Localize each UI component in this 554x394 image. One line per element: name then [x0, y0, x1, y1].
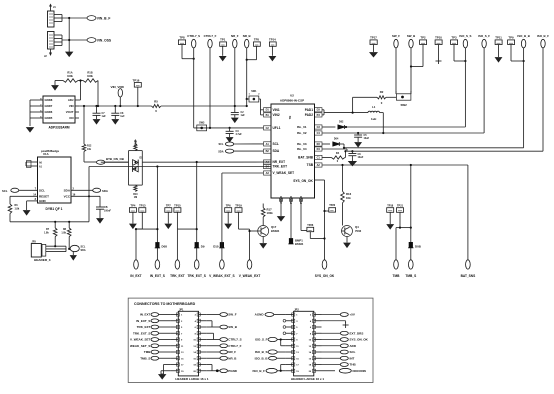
svg-text:TP14: TP14: [269, 38, 276, 42]
svg-text:VIN_VDD: VIN_VDD: [111, 85, 125, 89]
svg-text:ISO_B_F: ISO_B_F: [537, 34, 549, 38]
svg-text:CTRL7_F: CTRL7_F: [228, 344, 241, 348]
svg-text:VOUT: VOUT: [66, 110, 74, 114]
svg-text:TRK_EXT_S: TRK_EXT_S: [187, 274, 205, 278]
svg-text:ISO_S_S: ISO_S_S: [459, 34, 471, 38]
svg-text:HEADER LARGE 16 x 1: HEADER LARGE 16 x 1: [175, 377, 209, 381]
svg-text:GND7: GND7: [45, 104, 53, 108]
svg-text:TP15: TP15: [174, 203, 181, 207]
svg-text:R5: R5: [154, 99, 158, 103]
svg-text:TP18: TP18: [387, 204, 394, 207]
svg-text:TRK_EXT: TRK_EXT: [137, 325, 151, 329]
svg-text:D04: D04: [334, 138, 339, 141]
svg-text:NOCONN: NOCONN: [353, 369, 366, 373]
svg-text:TP3: TP3: [451, 36, 457, 40]
svg-text:SCL: SCL: [81, 246, 86, 249]
svg-text:NR_B: NR_B: [243, 34, 251, 38]
svg-text:TP26: TP26: [307, 224, 314, 227]
svg-text:ISL_01: ISL_01: [297, 125, 307, 129]
svg-text:VCC: VCC: [64, 195, 71, 199]
svg-text:SCL: SCL: [2, 189, 8, 193]
svg-text:1.8k: 1.8k: [61, 232, 66, 235]
svg-text:TMB_S: TMB_S: [405, 274, 416, 278]
svg-text:TP13: TP13: [139, 203, 146, 207]
svg-text:U2: U2: [290, 94, 294, 98]
svg-text:1uF: 1uF: [102, 115, 107, 118]
svg-text:SW_B: SW_B: [407, 34, 415, 38]
svg-text:TP2: TP2: [420, 36, 426, 40]
svg-text:VIN_OSS: VIN_OSS: [97, 38, 112, 42]
svg-text:D9: D9: [201, 244, 205, 248]
svg-text:1M: 1M: [134, 196, 137, 199]
svg-text:DYB1 QF 1: DYB1 QF 1: [45, 207, 62, 211]
svg-text:BAT_SNB: BAT_SNB: [298, 156, 314, 160]
svg-text:TMB: TMB: [144, 350, 151, 354]
svg-text:V_WEAK_SET: V_WEAK_SET: [130, 338, 151, 342]
svg-text:VIN1: VIN1: [273, 108, 280, 112]
svg-text:IN_EXT: IN_EXT: [130, 274, 141, 278]
svg-text:SDA: SDA: [273, 149, 280, 153]
svg-text:100k: 100k: [87, 74, 93, 78]
svg-text:100k: 100k: [267, 211, 274, 215]
svg-text:TP6: TP6: [226, 203, 231, 207]
svg-text:D0B: D0B: [415, 244, 421, 248]
svg-text:100k: 100k: [67, 74, 73, 78]
svg-text:THB: THB: [350, 363, 357, 367]
svg-text:ADJ: ADJ: [68, 98, 74, 102]
svg-text:CTRL7_S: CTRL7_S: [228, 338, 241, 342]
svg-text:NR_B: NR_B: [228, 356, 237, 360]
svg-text:10uF: 10uF: [358, 156, 364, 159]
svg-text:TP1: TP1: [220, 38, 226, 42]
svg-text:GND5: GND5: [45, 116, 53, 120]
svg-text:AGND: AGND: [255, 313, 265, 317]
svg-text:TSB: TSB: [307, 163, 314, 167]
svg-text:TP21: TP21: [397, 204, 404, 207]
svg-text:EXT_DRS: EXT_DRS: [350, 331, 364, 335]
svg-text:D08: D08: [162, 244, 168, 248]
svg-text:TP7: TP7: [166, 203, 171, 207]
svg-text:10k: 10k: [346, 196, 351, 200]
svg-text:NR_F: NR_F: [231, 34, 239, 38]
svg-text:PAD2: PAD2: [305, 113, 313, 117]
svg-text:CTRL7_S: CTRL7_S: [187, 34, 200, 38]
svg-text:+5V: +5V: [350, 313, 355, 317]
svg-text:SYS_ON_OK: SYS_ON_OK: [315, 274, 335, 278]
svg-text:ISL_03: ISL_03: [297, 142, 307, 146]
svg-text:SCL: SCL: [219, 143, 224, 146]
svg-text:V_WEAK_EXT_S: V_WEAK_EXT_S: [209, 274, 235, 278]
svg-text:ISO_B_F: ISO_B_F: [252, 369, 265, 373]
svg-text:SDA: SDA: [81, 249, 86, 252]
svg-text:SDA: SDA: [102, 189, 108, 193]
svg-text:SW_F: SW_F: [392, 34, 400, 38]
svg-text:TP16: TP16: [133, 79, 140, 83]
svg-text:R1B: R1B: [87, 71, 92, 75]
svg-text:ISO_S_F: ISO_S_F: [255, 338, 268, 342]
svg-text:HEADER_3: HEADER_3: [34, 258, 51, 262]
svg-text:SW2: SW2: [400, 103, 407, 107]
svg-text:SCL: SCL: [39, 189, 45, 193]
svg-text:ON: ON: [69, 116, 73, 120]
svg-text:R2: R2: [380, 90, 384, 94]
svg-text:V_WEAK_EXT: V_WEAK_EXT: [239, 274, 261, 278]
svg-text:CONNECTORS TO MOTHERBOARD: CONNECTORS TO MOTHERBOARD: [134, 302, 196, 306]
svg-text:TP19: TP19: [235, 203, 242, 207]
svg-text:SDA: SDA: [64, 189, 71, 193]
svg-text:TRK_EXT_S: TRK_EXT_S: [133, 331, 150, 335]
svg-text:1uF: 1uF: [120, 115, 125, 118]
svg-text:1uF: 1uF: [241, 114, 246, 117]
svg-text:TP11: TP11: [495, 36, 502, 40]
svg-text:TP10: TP10: [435, 36, 442, 40]
svg-text:CTRL7_F: CTRL7_F: [204, 34, 217, 38]
svg-text:1.8k: 1.8k: [15, 208, 20, 211]
svg-text:ISO_B_B: ISO_B_B: [517, 34, 529, 38]
svg-text:WEAK_SET_S: WEAK_SET_S: [130, 344, 150, 348]
svg-text:7002: 7002: [355, 229, 362, 233]
svg-text:SCL: SCL: [350, 350, 356, 354]
svg-text:INT: INT: [350, 356, 355, 360]
svg-text:TP9: TP9: [508, 36, 514, 40]
svg-text:BSS84: BSS84: [295, 242, 304, 246]
svg-text:VIN2: VIN2: [273, 113, 280, 117]
svg-text:V_WEAK_SET: V_WEAK_SET: [273, 171, 295, 175]
svg-text:VIN: VIN: [69, 104, 74, 108]
svg-text:SW_F: SW_F: [228, 313, 237, 317]
svg-text:GND8: GND8: [45, 98, 53, 102]
svg-text:TP20: TP20: [329, 204, 336, 207]
svg-text:ISL_04: ISL_04: [297, 147, 307, 151]
svg-text:L1: L1: [372, 105, 376, 109]
svg-text:BMP1: BMP1: [295, 238, 303, 242]
svg-text:ISO_B_S: ISO_B_S: [255, 350, 268, 354]
svg-text:BTB_ON_OB: BTB_ON_OB: [106, 157, 124, 161]
svg-text:GND6: GND6: [45, 110, 53, 114]
svg-text:R1A: R1A: [67, 71, 72, 75]
svg-text:PGND: PGND: [228, 369, 238, 373]
svg-text:100nF: 100nF: [104, 209, 111, 212]
svg-text:SW1: SW1: [251, 90, 257, 93]
svg-text:RESET: RESET: [39, 195, 49, 199]
svg-text:SCL: SCL: [273, 142, 279, 146]
svg-text:pca9536adgs: pca9536adgs: [41, 149, 60, 153]
svg-text:BAT_SNS: BAT_SNS: [461, 274, 476, 278]
svg-text:SYS_ON_OK: SYS_ON_OK: [350, 338, 369, 342]
svg-text:10k: 10k: [87, 148, 92, 151]
svg-text:VIN_B_F: VIN_B_F: [97, 16, 111, 20]
svg-text:TMB: TMB: [393, 274, 401, 278]
svg-text:TP5: TP5: [254, 38, 260, 42]
svg-text:SYS_ON_OK: SYS_ON_OK: [293, 179, 313, 183]
svg-text:SDA: SDA: [218, 150, 223, 153]
svg-text:IN_EXT: IN_EXT: [140, 313, 151, 317]
svg-text:TR: TR: [288, 116, 292, 120]
svg-text:D02: D02: [339, 121, 344, 124]
svg-text:4.7uF: 4.7uF: [236, 133, 243, 136]
svg-text:ADD: ADD: [350, 344, 357, 348]
svg-text:10uF: 10uF: [364, 137, 370, 140]
svg-text:SW3: SW3: [199, 122, 205, 125]
svg-text:NR_EXT: NR_EXT: [273, 160, 286, 164]
svg-text:TP17: TP17: [370, 36, 377, 40]
svg-text:ISO_S_F: ISO_S_F: [478, 34, 490, 38]
svg-text:BSS84: BSS84: [271, 229, 280, 233]
svg-text:Q17: Q17: [271, 225, 277, 229]
svg-text:ADP8866-IN-CSP: ADP8866-IN-CSP: [280, 98, 304, 102]
svg-text:D10: D10: [213, 244, 219, 248]
svg-text:TP4: TP4: [130, 203, 135, 207]
svg-text:TP8: TP8: [179, 36, 185, 40]
svg-text:PAD1: PAD1: [305, 108, 313, 112]
svg-text:ISL_02: ISL_02: [297, 131, 307, 135]
svg-text:TRK_EXT: TRK_EXT: [273, 165, 288, 169]
svg-text:TRK_EXT: TRK_EXT: [170, 274, 185, 278]
svg-text:UFL1: UFL1: [273, 126, 281, 130]
svg-text:SW_B: SW_B: [228, 325, 238, 329]
svg-text:IN_EXT_S: IN_EXT_S: [136, 319, 150, 323]
svg-text:ISO_B_B: ISO_B_B: [255, 356, 269, 360]
svg-text:NR_F: NR_F: [228, 350, 236, 354]
svg-text:GND: GND: [39, 199, 47, 203]
svg-text:TMB_S: TMB_S: [140, 356, 150, 360]
svg-text:1uH: 1uH: [371, 117, 376, 121]
svg-text:ADP3333ARM: ADP3333ARM: [48, 125, 69, 129]
svg-text:HEADER LARGE 16 x 1: HEADER LARGE 16 x 1: [291, 377, 325, 381]
svg-text:IN_EXT_S: IN_EXT_S: [150, 274, 165, 278]
svg-text:1.8k: 1.8k: [44, 232, 49, 235]
